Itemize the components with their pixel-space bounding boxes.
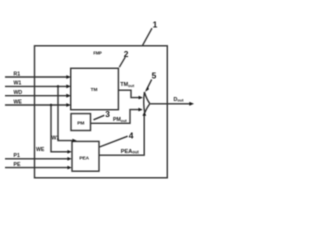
reference numeral 1 leader [143,28,152,45]
svg-text:PEAout: PEAout [121,149,140,155]
svg-text:FMP: FMP [93,50,102,55]
block PEA [72,141,99,171]
wire WE into TM [5,104,67,106]
svg-text:WE: WE [14,99,23,105]
reference numeral 4 leader [100,136,128,147]
svg-text:TM: TM [91,87,98,92]
block TM [71,68,119,109]
svg-text:2: 2 [124,49,129,59]
block PM [71,114,91,131]
svg-text:WE: WE [36,147,45,153]
svg-text:PMout: PMout [113,117,127,123]
svg-text:TMout: TMout [120,82,135,88]
node WE branch junction [50,104,53,107]
node W1 branch junction [57,85,60,88]
svg-text:W1: W1 [52,136,60,142]
wire R1 into TM [5,76,67,78]
svg-text:3: 3 [105,109,110,119]
svg-text:1: 1 [153,20,158,30]
reference numeral 5 leader [146,79,152,90]
svg-text:PEA: PEA [79,155,89,160]
svg-text:P1: P1 [14,153,20,159]
svg-text:PE: PE [14,162,21,168]
wire TMout from TM to selector [118,90,139,97]
wire PE into PEA [5,167,68,169]
svg-text:W1: W1 [14,81,22,87]
wire WE branch down to PEA [51,105,68,152]
wire W1 into TM [5,85,67,87]
svg-text:WD: WD [14,90,23,96]
svg-text:R1: R1 [14,71,21,77]
reference numeral 3 leader [94,115,105,120]
svg-text:4: 4 [129,130,134,140]
selector (mux) 5 [144,92,150,113]
wire P1 into PEA [5,158,68,160]
wire W1 branch down to PEA [58,86,73,140]
svg-text:Dout: Dout [174,97,185,103]
outer box FMP [35,46,168,178]
svg-text:PM: PM [77,120,84,126]
wire PEAout from PEA up to selector [99,115,144,156]
wire PMout from PM to selector [91,110,140,124]
svg-text:5: 5 [152,70,157,80]
wire Dout output [150,103,190,105]
reference numeral 2 leader [119,57,125,67]
wire WD into TM [5,95,67,97]
